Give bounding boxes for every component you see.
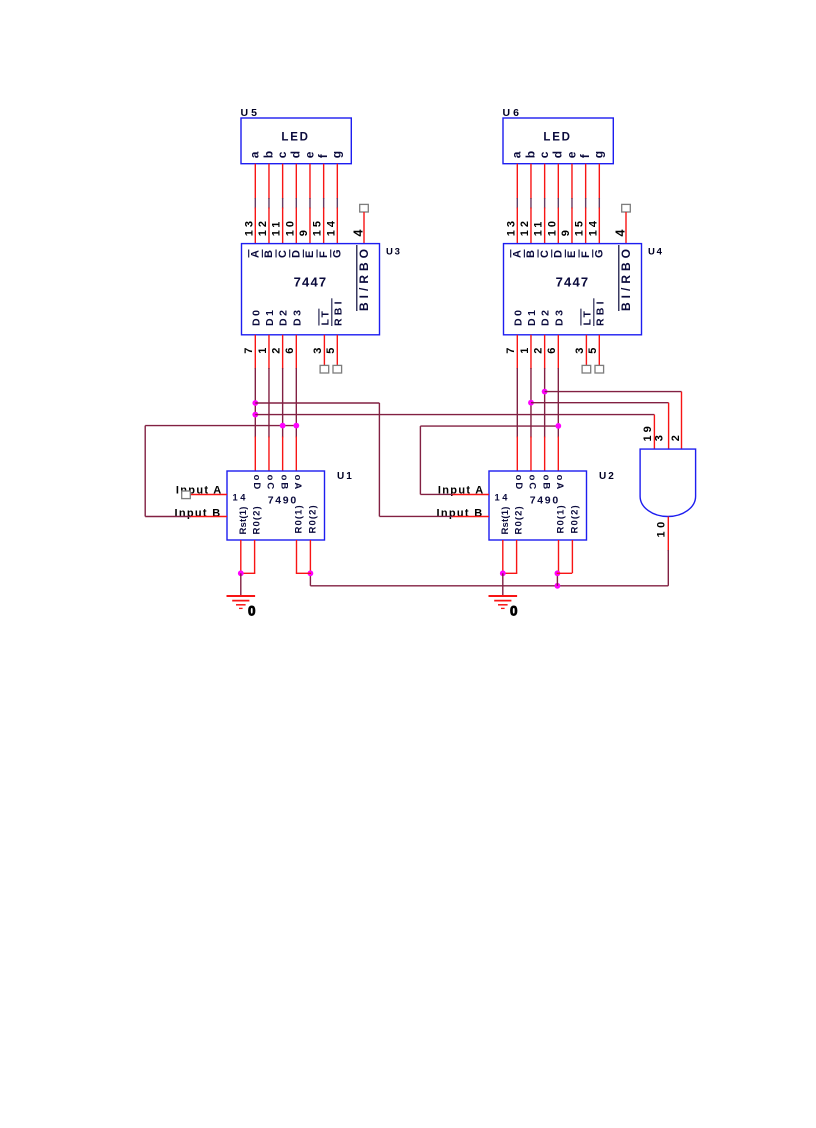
wire U4.D2 to U2 (upper) [544, 335, 546, 369]
junction U1 QD / AND input [252, 412, 258, 418]
svg-text:R0(2): R0(2) [514, 505, 525, 534]
terminal square on U4.RBI [595, 365, 604, 373]
svg-text:R0(2): R0(2) [252, 505, 263, 534]
svg-text:c: c [537, 151, 551, 158]
wire U2 R9(1) down [502, 540, 504, 573]
wire U4.RBI to terminal [598, 335, 600, 366]
svg-text:BI/RBO: BI/RBO [357, 245, 371, 311]
LED display U6 [503, 118, 613, 164]
wire U6.g to U4 (mid) [598, 198, 600, 209]
svg-text:D3: D3 [291, 307, 303, 326]
svg-text:g: g [592, 151, 606, 158]
wire U5.e to U3 (upper) [309, 164, 311, 199]
svg-text:D: D [291, 250, 303, 258]
wire AND input 1 stub [653, 415, 655, 450]
svg-text:Input B: Input B [437, 507, 484, 519]
wire AND output stub [667, 517, 669, 552]
svg-text:5: 5 [325, 348, 337, 354]
junction U1 R0 pair [308, 570, 314, 576]
svg-text:b: b [523, 151, 537, 158]
wire U5.e to U3 (mid) [309, 198, 311, 209]
wire U5.f to U3 (mid) [323, 198, 325, 209]
wire U5.e to U3 (lower) [309, 208, 311, 244]
wire U5.c to U3 (mid) [282, 198, 284, 209]
wire U2 R0(1) down [558, 540, 560, 573]
wire U6.c to U4 (lower) [544, 208, 546, 244]
wire Input B stub of U2 [452, 516, 489, 518]
svg-text:C: C [539, 250, 551, 258]
svg-text:0: 0 [510, 603, 518, 618]
svg-text:e: e [302, 151, 316, 158]
wire U6.b to U4 (lower) [530, 208, 532, 244]
wire U5.g to U3 (upper) [336, 164, 338, 199]
wire U5.b to U3 (lower) [268, 208, 270, 244]
wire U6.d to U4 (lower) [557, 208, 559, 244]
terminal square on U3.LT [320, 365, 329, 373]
svg-text:oA: oA [554, 475, 565, 492]
svg-text:E: E [566, 251, 578, 258]
wire AND input 3 stub [681, 392, 683, 450]
svg-text:g: g [330, 151, 344, 158]
wire cascade horizontal y=403 [255, 402, 379, 404]
wire terminal to U4 BI/RBO [625, 212, 627, 244]
wire U3.D3 to U1 (lower) [295, 437, 297, 472]
svg-text:D1: D1 [264, 307, 276, 326]
svg-text:Rst(1): Rst(1) [238, 506, 249, 534]
svg-text:D2: D2 [540, 307, 552, 326]
svg-text:2: 2 [270, 348, 282, 354]
wire Input A stub of U2 [452, 494, 489, 496]
wire U3.LT to terminal [323, 335, 325, 366]
svg-text:1: 1 [257, 348, 269, 354]
wire U6.b to U4 (mid) [530, 198, 532, 209]
wire U3.D2 to U1 (lower) [282, 437, 284, 472]
wire U1 R9(2) down [254, 540, 256, 573]
wire U3.D3 to U1 (mid) [295, 368, 297, 438]
wire U4.D3 to U2 (mid) [557, 368, 559, 438]
wire U5.b to U3 (mid) [268, 198, 270, 209]
wire U1 feedback vertical x=145 [144, 426, 146, 517]
wire AND input 2 stub [668, 403, 670, 449]
wire to ground of U2 [502, 573, 504, 595]
wire reset bus y=585 [310, 585, 668, 587]
7447 decoder U3 [242, 244, 380, 335]
svg-text:14: 14 [587, 218, 599, 236]
ground symbol for U1 [227, 596, 256, 608]
svg-text:3: 3 [653, 435, 665, 441]
svg-text:LT: LT [581, 309, 593, 326]
ground symbol for U2 [489, 596, 518, 608]
svg-text:BI/RBO: BI/RBO [619, 245, 633, 311]
wire U6.a to U4 (upper) [516, 164, 518, 199]
svg-text:15: 15 [312, 218, 324, 236]
svg-text:Input B: Input B [175, 507, 222, 519]
wire U5.f to U3 (lower) [323, 208, 325, 244]
wire U3.D2 to U1 (upper) [282, 335, 284, 369]
svg-text:B: B [263, 250, 275, 258]
wire U2 feedback horizontal y=426 [420, 425, 558, 427]
wire U3.RBI to terminal [336, 335, 338, 366]
wire U2 R9(2) down [516, 540, 518, 573]
wire U3.D0 to U1 (mid) [254, 368, 256, 438]
junction U1 ground net [238, 570, 244, 576]
wire U6.f to U4 (upper) [585, 164, 587, 199]
junction U2 QC / AND input [528, 400, 534, 406]
wire U2 R0(2) down [571, 540, 573, 573]
7447 decoder U4 [504, 244, 642, 335]
wire join R9 pair of U2 [502, 572, 517, 574]
svg-text:R0(2): R0(2) [307, 504, 318, 533]
wire U5.a to U3 (mid) [254, 198, 256, 209]
wire U1 R9(1) down [240, 540, 242, 573]
wire U4.D3 to U2 (lower) [557, 437, 559, 472]
svg-text:C: C [277, 250, 289, 258]
wire U6.a to U4 (mid) [516, 198, 518, 209]
svg-text:15: 15 [574, 218, 586, 236]
wire U6.e to U4 (upper) [571, 164, 573, 199]
wire U4.D3 to U2 (upper) [557, 335, 559, 369]
svg-text:a: a [248, 151, 262, 158]
wire to ground of U1 [240, 573, 242, 595]
wire U6.d to U4 (mid) [557, 198, 559, 209]
junction U2 QB / AND input [542, 389, 548, 395]
wire U3.D3 to U1 (upper) [295, 335, 297, 369]
wire U6.c to U4 (upper) [544, 164, 546, 199]
wire join U2 R0 pair [557, 572, 572, 574]
svg-text:oB: oB [540, 475, 551, 492]
wire U3.D1 to U1 (mid) [268, 368, 270, 438]
wire U3.D0 to U1 (upper) [254, 335, 256, 369]
svg-text:10: 10 [655, 518, 667, 537]
wire U6.f to U4 (mid) [585, 198, 587, 209]
wire U4.D1 to U2 (lower) [530, 437, 532, 472]
junction U1 QB / feedback [280, 423, 286, 429]
svg-text:B: B [525, 250, 537, 258]
svg-text:U1: U1 [337, 471, 354, 482]
svg-text:D0: D0 [512, 307, 524, 326]
terminal square Input A of U1 [182, 491, 191, 499]
svg-text:U3: U3 [386, 247, 402, 258]
svg-text:b: b [261, 151, 275, 158]
svg-text:11: 11 [533, 219, 545, 237]
svg-text:a: a [510, 151, 524, 158]
svg-text:D: D [553, 250, 565, 258]
svg-text:10: 10 [546, 218, 558, 236]
svg-text:3: 3 [312, 348, 324, 354]
wire U3.D1 to U1 (lower) [268, 437, 270, 472]
svg-text:F: F [318, 251, 330, 258]
wire U5.f to U3 (upper) [323, 164, 325, 199]
svg-text:F: F [580, 251, 592, 258]
svg-text:d: d [551, 151, 565, 158]
svg-text:c: c [275, 151, 289, 158]
wire U2 QB to AND gate y=391 [545, 391, 682, 393]
wire U5.g to U3 (mid) [336, 198, 338, 209]
wire terminal to U3 BI/RBO [363, 212, 365, 244]
wire U4.LT to terminal [585, 335, 587, 366]
svg-text:D0: D0 [250, 307, 262, 326]
wire U1 R0 pair to reset bus [309, 573, 311, 586]
wire U4.D1 to U2 (mid) [530, 368, 532, 438]
wire Input B stub of U1 [190, 516, 227, 518]
svg-text:oB: oB [278, 475, 289, 492]
terminal square on U3 BI/RBO [360, 204, 369, 212]
svg-text:1: 1 [519, 348, 531, 354]
wire cascade to U2 Input B [379, 515, 452, 517]
svg-text:2: 2 [532, 348, 544, 354]
svg-text:7: 7 [505, 348, 517, 354]
wire U2 R0 pair to reset bus [556, 573, 558, 586]
junction U2 QA / feedback [555, 423, 561, 429]
7490 counter U2 [489, 471, 587, 540]
wire U4.D0 to U2 (mid) [516, 368, 518, 438]
terminal square on U4 BI/RBO [622, 204, 631, 212]
svg-text:oA: oA [292, 475, 303, 492]
svg-text:U6: U6 [503, 107, 522, 119]
svg-text:D1: D1 [526, 307, 538, 326]
terminal square on U4.LT [582, 365, 591, 373]
wire cascade vertical x=379 [378, 403, 380, 516]
svg-text:R0(1): R0(1) [556, 504, 567, 533]
svg-text:5: 5 [587, 348, 599, 354]
svg-text:d: d [289, 151, 303, 158]
junction U2 ground net [500, 570, 506, 576]
svg-text:U4: U4 [648, 247, 664, 258]
wire U6.b to U4 (upper) [530, 164, 532, 199]
wire U4.D0 to U2 (upper) [516, 335, 518, 369]
wire U6.f to U4 (lower) [585, 208, 587, 244]
svg-text:E: E [304, 251, 316, 258]
wire U1 R0(2) down [309, 540, 311, 573]
junction U1 QD / cascade [252, 400, 258, 406]
wire U4.D0 to U2 (lower) [516, 437, 518, 472]
svg-text:2: 2 [670, 435, 682, 441]
wire U4.D2 to U2 (mid) [544, 368, 546, 438]
junction U1 QA / feedback [293, 423, 299, 429]
svg-text:G: G [594, 249, 606, 258]
7490 counter U1 [227, 471, 325, 540]
svg-text:12: 12 [519, 218, 531, 236]
svg-text:14: 14 [495, 492, 511, 502]
svg-text:Rst(1): Rst(1) [500, 506, 511, 534]
svg-text:oD: oD [513, 475, 524, 492]
junction reset bus / U2 R0 [555, 583, 561, 589]
svg-text:R0(2): R0(2) [569, 504, 580, 533]
svg-text:A: A [250, 250, 262, 258]
svg-text:U5: U5 [241, 107, 260, 119]
svg-text:RBI: RBI [332, 298, 344, 326]
wire U5.a to U3 (upper) [254, 164, 256, 199]
wire Input A stub of U1 [190, 494, 227, 496]
svg-text:12: 12 [257, 218, 269, 236]
svg-text:7: 7 [243, 348, 255, 354]
wire U5.d to U3 (lower) [295, 208, 297, 244]
svg-text:LED: LED [543, 132, 571, 144]
AND gate [640, 449, 696, 516]
wire U5.c to U3 (upper) [282, 164, 284, 199]
wire U3.D1 to U1 (upper) [268, 335, 270, 369]
wire U3.D0 to U1 (lower) [254, 437, 256, 472]
svg-text:oC: oC [265, 475, 276, 492]
wire U6.a to U4 (lower) [516, 208, 518, 244]
terminal square on U3.RBI [333, 365, 342, 373]
svg-text:0: 0 [248, 603, 256, 618]
wire U6.c to U4 (mid) [544, 198, 546, 209]
wire U6.g to U4 (upper) [598, 164, 600, 199]
wire U2 QC to AND gate y=402 [531, 402, 669, 404]
wire U3.D2 to U1 (mid) [282, 368, 284, 438]
wire AND output vertical [667, 550, 669, 586]
wire U4.D2 to U2 (lower) [544, 437, 546, 472]
wire U1 feedback to Input B [145, 516, 191, 518]
wire U5.g to U3 (lower) [336, 208, 338, 244]
svg-text:D2: D2 [278, 307, 290, 326]
svg-text:G: G [332, 249, 344, 258]
wire U2 feedback to Input A [420, 493, 452, 495]
wire join U1 R0 pair [296, 572, 311, 574]
wire U5.d to U3 (mid) [295, 198, 297, 209]
wire U6.e to U4 (mid) [571, 198, 573, 209]
svg-text:RBI: RBI [594, 298, 606, 326]
svg-text:3: 3 [574, 348, 586, 354]
svg-text:oD: oD [251, 475, 262, 492]
svg-text:R0(1): R0(1) [294, 504, 305, 533]
wire U6.g to U4 (lower) [598, 208, 600, 244]
wire U6.e to U4 (lower) [571, 208, 573, 244]
wire U4.D1 to U2 (upper) [530, 335, 532, 369]
wire U2 feedback vertical x=420 [419, 426, 421, 494]
svg-text:A: A [512, 250, 524, 258]
svg-text:13: 13 [505, 218, 517, 236]
svg-text:oC: oC [527, 475, 538, 492]
svg-text:6: 6 [284, 348, 296, 354]
svg-text:13: 13 [243, 218, 255, 236]
svg-text:D3: D3 [553, 307, 565, 326]
svg-text:U2: U2 [599, 471, 616, 482]
svg-text:LT: LT [319, 309, 331, 326]
junction U2 R0 pair [555, 570, 561, 576]
svg-text:7447: 7447 [556, 275, 590, 290]
svg-text:11: 11 [271, 219, 283, 237]
wire U5.a to U3 (lower) [254, 208, 256, 244]
wire U5.b to U3 (upper) [268, 164, 270, 199]
wire U6.d to U4 (upper) [557, 164, 559, 199]
wire join R9 pair of U1 [240, 572, 255, 574]
svg-text:9: 9 [298, 227, 310, 236]
wire U1 R0(1) down [296, 540, 298, 573]
wire U1 QD to AND gate y=414 [255, 414, 654, 416]
wire U5.d to U3 (upper) [295, 164, 297, 199]
LED display U5 [241, 118, 351, 164]
svg-text:14: 14 [233, 492, 249, 502]
wire U1 feedback horizontal y=425 [145, 425, 296, 427]
svg-text:e: e [564, 151, 578, 158]
svg-text:LED: LED [281, 132, 309, 144]
svg-text:6: 6 [546, 348, 558, 354]
svg-text:14: 14 [325, 218, 337, 236]
svg-text:7447: 7447 [294, 275, 328, 290]
svg-text:9: 9 [560, 227, 572, 236]
svg-text:10: 10 [284, 218, 296, 236]
wire U5.c to U3 (lower) [282, 208, 284, 244]
